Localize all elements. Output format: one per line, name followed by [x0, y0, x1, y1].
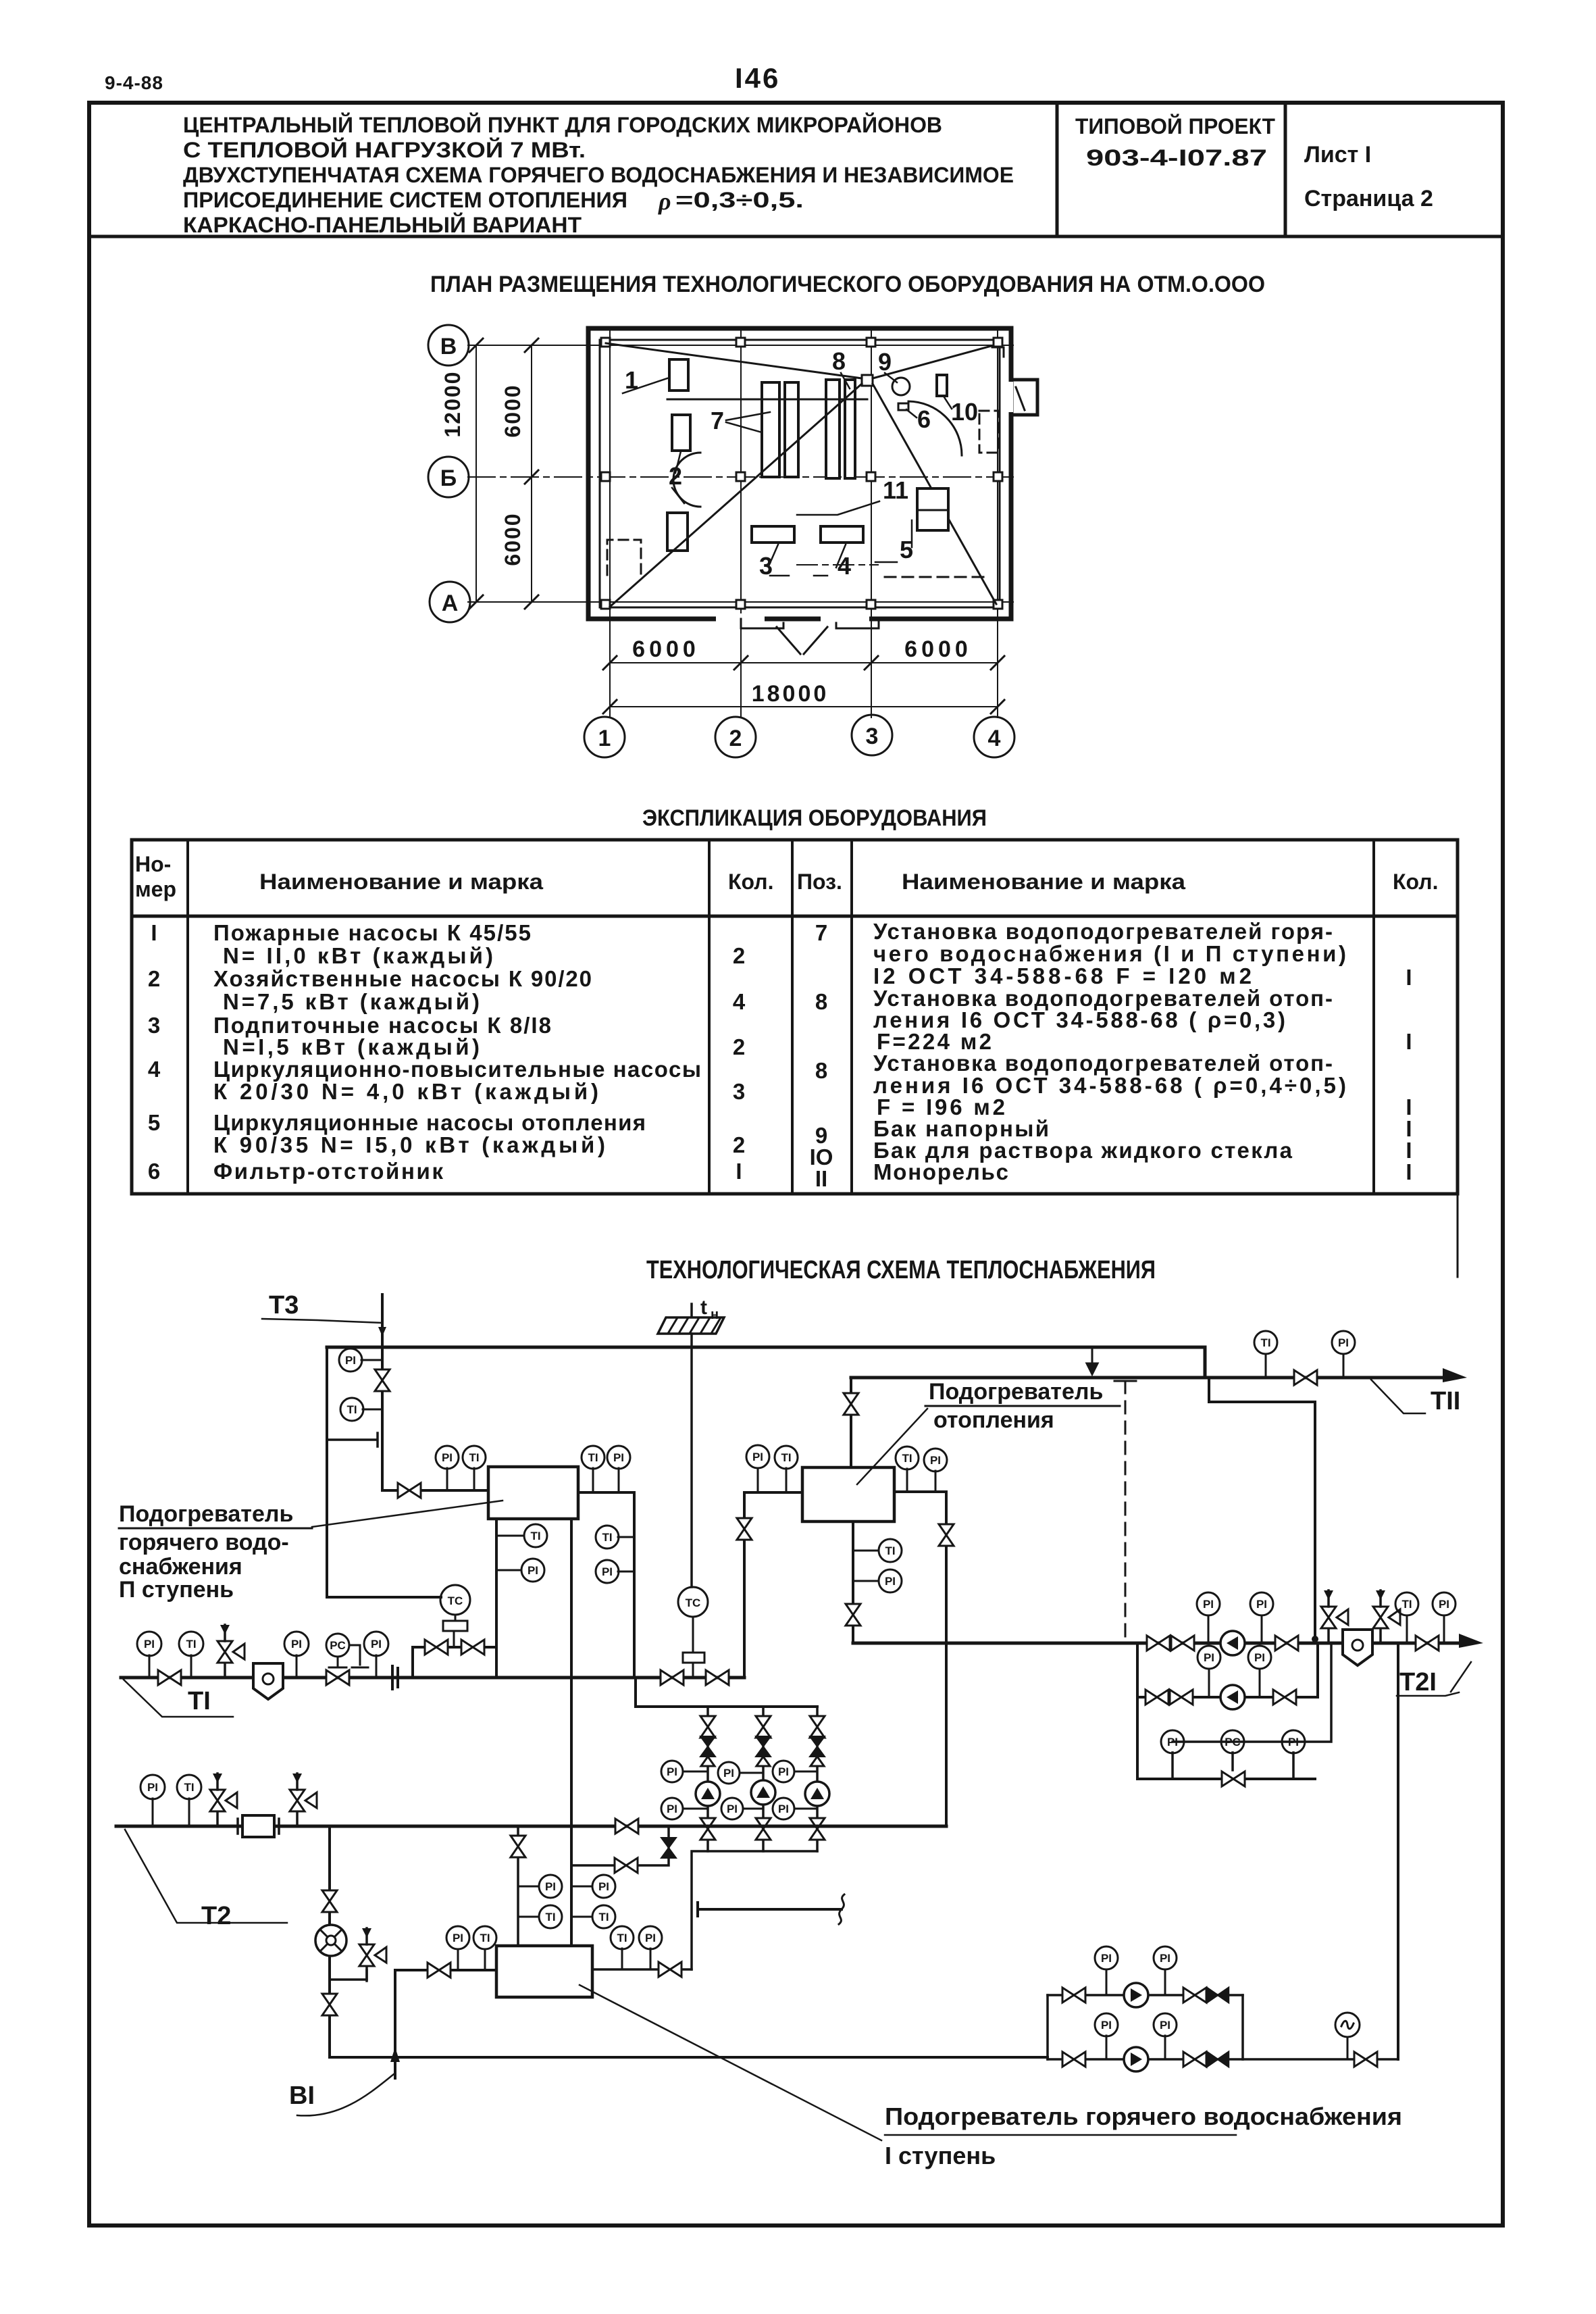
equipment 6 small [898, 403, 908, 410]
svg-text:П ступень: П ступень [119, 1577, 234, 1603]
svg-text:PI: PI [1256, 1598, 1267, 1611]
monorail diagonal to bottom-right [873, 384, 996, 604]
svg-text:2: 2 [669, 462, 682, 490]
svg-text:снабжения: снабжения [119, 1554, 242, 1580]
equipment 9: tank circle [892, 378, 910, 395]
svg-text:2: 2 [148, 966, 160, 991]
svg-text:PI: PI [667, 1803, 677, 1815]
wire: T11 to T21 connection [1209, 1378, 1315, 1638]
pump branch 2 [762, 1707, 765, 1851]
svg-text:TI: TI [186, 1638, 196, 1651]
pump 2 [751, 1780, 775, 1805]
svg-text:I: I [1406, 1029, 1412, 1054]
svg-text:TC: TC [448, 1594, 463, 1607]
svg-text:Поз.: Поз. [797, 870, 842, 894]
gauge PI pump1 left [1208, 1615, 1210, 1643]
svg-text:PI: PI [727, 1803, 738, 1815]
svg-text:N= II,0 кВт (каждый): N= II,0 кВт (каждый) [223, 943, 493, 968]
vestibule porch [1013, 380, 1037, 415]
mud separator on T21 [1343, 1630, 1372, 1665]
monorail diagonal to top-right [873, 346, 992, 378]
right border stub below table [1457, 1194, 1459, 1277]
svg-text:I ступень: I ступень [885, 2142, 996, 2169]
equipment rect below 1 [672, 415, 690, 451]
gauge TI on T21 [1406, 1615, 1408, 1643]
stage I pump top branch [1048, 1994, 1243, 1996]
svg-text:11: 11 [883, 476, 908, 504]
leader to HX1 [312, 1501, 503, 1527]
title block divider 1 [1056, 103, 1059, 236]
stage I pump group: left riser [1046, 1995, 1049, 2059]
gauge PI on T1 [149, 1655, 151, 1678]
svg-text:PI: PI [598, 1880, 609, 1893]
svg-text:PI: PI [930, 1454, 941, 1467]
svg-text:PI: PI [1101, 2019, 1112, 2032]
svg-text:Т2I: Т2I [1399, 1668, 1437, 1696]
leader to HX2 [857, 1409, 927, 1484]
gauge PI before pump Ib [1106, 2036, 1108, 2059]
building inner wall [600, 340, 1000, 607]
gauge TI above HX2 left [786, 1468, 788, 1492]
svg-text:903-4-I07.87: 903-4-I07.87 [1086, 145, 1267, 171]
pump 1 [696, 1782, 720, 1806]
gauge PI HX-I inlet [457, 1949, 459, 1970]
svg-text:Циркуляционно-повысительные на: Циркуляционно-повысительные насосы [213, 1057, 701, 1082]
svg-text:2: 2 [733, 1034, 745, 1059]
leader T3 [262, 1319, 382, 1323]
svg-text:6000: 6000 [500, 384, 525, 437]
svg-text:2: 2 [733, 1132, 745, 1157]
gauge PI pump2 left [1208, 1669, 1210, 1697]
svg-text:5: 5 [148, 1110, 160, 1135]
svg-text:9: 9 [878, 348, 892, 376]
svg-text:PI: PI [1288, 1736, 1299, 1749]
pump circulation 2 [1220, 1685, 1245, 1709]
svg-text:Т3: Т3 [269, 1291, 299, 1319]
svg-text:TI: TI [588, 1451, 598, 1464]
svg-text:PI: PI [1204, 1651, 1214, 1664]
svg-text:TI: TI [598, 1911, 609, 1923]
svg-text:I46: I46 [735, 62, 780, 94]
gauge PI before pump Ia [1106, 1969, 1108, 1995]
svg-text:Хозяйственные насосы К 90/20: Хозяйственные насосы К 90/20 [213, 966, 592, 991]
stage I pump right riser [1241, 1995, 1244, 2059]
dashed drain line [1125, 1381, 1127, 1638]
svg-text:ЭКСПЛИКАЦИЯ ОБОРУДОВАНИЯ: ЭКСПЛИКАЦИЯ ОБОРУДОВАНИЯ [642, 805, 987, 831]
monorail trolley square [862, 375, 873, 386]
gauge PI on T11 [1343, 1354, 1345, 1378]
gauge TI HX-I inlet [484, 1949, 486, 1970]
plan item labels with leaders [623, 347, 978, 580]
svg-text:PI: PI [1203, 1598, 1214, 1611]
gauge PI pump1 right [1261, 1615, 1263, 1643]
door leaf diagonals [777, 627, 800, 654]
svg-text:ДВУХСТУПЕНЧАТАЯ СХЕМА ГОРЯЧЕГО: ДВУХСТУПЕНЧАТАЯ СХЕМА ГОРЯЧЕГО ВОДОСНАБЖ… [183, 163, 1014, 187]
wire: T3 riser [382, 1294, 488, 1490]
wire: B1 riser to T21 junction [1397, 1643, 1399, 2059]
table body left [148, 920, 746, 1184]
svg-text:Установка водоподогревателей о: Установка водоподогревателей отоп- [873, 1051, 1333, 1076]
svg-text:TI: TI [602, 1531, 612, 1544]
svg-text:мер: мер [135, 877, 176, 901]
gauge PI on line 939 [618, 1571, 634, 1573]
svg-text:7: 7 [711, 407, 724, 434]
pump branch 3 [816, 1707, 819, 1851]
gauges PI row 2 [683, 1808, 708, 1810]
heat exchanger GVS stage II [488, 1467, 578, 1519]
equipment 10 rect [937, 375, 947, 396]
table column lines [188, 840, 1374, 1194]
wire: HX2 bottom drop [852, 1521, 854, 1643]
gauge PI on 846 [571, 1886, 592, 1888]
svg-text:Наименование и марка: Наименование и марка [259, 870, 543, 894]
wire: HX1 right outlet [578, 1492, 634, 1678]
gauge PI on 767 [518, 1886, 539, 1888]
svg-text:PI: PI [1439, 1598, 1449, 1611]
flow meter circle [1335, 2013, 1360, 2037]
svg-text:N=I,5 кВт (каждый): N=I,5 кВт (каждый) [223, 1034, 480, 1059]
svg-text:Т2: Т2 [201, 1902, 231, 1930]
broken continuation line [698, 1903, 842, 1916]
svg-text:PI: PI [1254, 1651, 1265, 1664]
svg-text:PI: PI [1167, 1736, 1178, 1749]
valve on T1 inlet [158, 1670, 181, 1685]
svg-text:TI: TI [469, 1451, 479, 1464]
grid circle 4 [974, 717, 1014, 757]
svg-text:PI: PI [752, 1451, 763, 1463]
gauge PI on drop 735 [496, 1569, 521, 1571]
svg-text:Кол.: Кол. [728, 870, 774, 894]
monorail diagonal from top-left corner [606, 343, 862, 378]
monorail beam [667, 399, 867, 401]
branch 2 fittings [756, 1716, 771, 1738]
wire: top header [327, 1346, 1205, 1349]
svg-text:PI: PI [545, 1880, 556, 1893]
wire: HX2 top outlet to T11 header [850, 1378, 852, 1467]
svg-text:II: II [815, 1166, 827, 1191]
branch 1 fittings [700, 1716, 715, 1738]
svg-text:10: 10 [951, 398, 978, 426]
svg-text:ρ: ρ [658, 188, 671, 215]
wire: left drop of GVS-II circuit [327, 1347, 441, 1597]
gauge TI on HX2 drop [853, 1550, 879, 1552]
svg-text:К 90/35 N= I5,0 кВт (каждый): К 90/35 N= I5,0 кВт (каждый) [213, 1132, 605, 1157]
table header separator [132, 915, 1458, 918]
bypass valve bottom [1222, 1771, 1245, 1786]
svg-text:ЦЕНТРАЛЬНЫЙ ТЕПЛОВОЙ ПУНКТ ДЛЯ: ЦЕНТРАЛЬНЫЙ ТЕПЛОВОЙ ПУНКТ ДЛЯ ГОРОДСКИХ… [183, 113, 942, 137]
wire: tn sensor line down to TC [690, 1334, 693, 1587]
gauge TI above HX2 right [906, 1469, 908, 1492]
svg-text:PI: PI [778, 1765, 789, 1778]
wire: main T1 [121, 1676, 744, 1680]
svg-text:PI: PI [291, 1638, 302, 1651]
svg-text:6000: 6000 [632, 636, 700, 662]
svg-text:ТII: ТII [1431, 1387, 1460, 1415]
svg-text:PI: PI [645, 1932, 656, 1944]
svg-text:4: 4 [838, 552, 851, 580]
wire: continue to meter [1243, 2058, 1398, 2061]
svg-text:N=7,5 кВт (каждый): N=7,5 кВт (каждый) [223, 989, 480, 1014]
svg-text:8: 8 [815, 1058, 827, 1083]
svg-text:TI: TI [480, 1932, 490, 1944]
gauge PI above HX1 right [618, 1468, 620, 1492]
wire: GVS pump manifold top header [636, 1678, 817, 1707]
pump branch 1 [706, 1707, 709, 1851]
gauge TI on 767 [518, 1916, 539, 1918]
safety valve on T1 [217, 1625, 244, 1678]
bottom dimension line 18000 [610, 706, 998, 707]
svg-text:PI: PI [1160, 1952, 1170, 1965]
grid axis line B [468, 345, 1013, 346]
svg-text:PI: PI [147, 1781, 158, 1794]
svg-text:PI: PI [723, 1767, 734, 1780]
branch 3 fittings [810, 1716, 825, 1738]
circulation pump row 2 [1137, 1643, 1318, 1697]
svg-text:ПЛАН РАЗМЕЩЕНИЯ ТЕХНОЛОГИЧЕСКО: ПЛАН РАЗМЕЩЕНИЯ ТЕХНОЛОГИЧЕСКОГО ОБОРУДО… [430, 272, 1265, 297]
svg-text:PI: PI [613, 1451, 624, 1464]
valve on T3 riser [375, 1369, 390, 1391]
svg-text:ТИПОВОЙ ПРОЕКТ: ТИПОВОЙ ПРОЕКТ [1075, 114, 1275, 139]
pump circulation 1 [1220, 1631, 1245, 1655]
wire: HX1 right lower drop (to stage I) [570, 1519, 573, 1946]
svg-text:PI: PI [1101, 1952, 1112, 1965]
svg-text:PI: PI [371, 1638, 382, 1651]
svg-text:PI: PI [453, 1932, 463, 1944]
svg-text:TI: TI [1401, 1598, 1412, 1611]
equipment 2: rect lower-left [667, 513, 688, 551]
valve on T11 [1294, 1370, 1317, 1385]
gauge PI pump2 right [1259, 1669, 1261, 1697]
svg-text:=0,3÷0,5.: =0,3÷0,5. [675, 188, 804, 212]
strainer on T2 [242, 1815, 274, 1837]
gauge TI on line 939 [618, 1536, 634, 1538]
svg-text:I: I [1406, 965, 1412, 990]
svg-text:Циркуляционные насосы отоплени: Циркуляционные насосы отопления [213, 1110, 646, 1135]
grid circle 1 [584, 717, 625, 757]
water meter cross [315, 1925, 346, 1956]
wire: GVS bypass with control valve [413, 1647, 496, 1678]
gauge TI above HX1 right [592, 1468, 594, 1492]
gauge PI after pump Ib [1164, 2036, 1166, 2059]
svg-text:горячего водо-: горячего водо- [119, 1530, 289, 1555]
door gaps in bottom wall [716, 613, 765, 624]
safety valve on T2 [210, 1774, 237, 1826]
circulation pump row 1 valves [1147, 1636, 1170, 1651]
svg-text:Бак для раствора жидкого стекл: Бак для раствора жидкого стекла [873, 1138, 1293, 1163]
grid axis line А [468, 601, 1013, 603]
svg-text:Подогреватель: Подогреватель [929, 1379, 1103, 1405]
svg-text:3: 3 [733, 1079, 745, 1104]
table body right [810, 919, 1412, 1191]
svg-text:6: 6 [917, 405, 931, 433]
svg-text:TI: TI [885, 1544, 895, 1557]
controller TC of heating valve [678, 1587, 708, 1617]
gauge PI above HX1 left [446, 1468, 448, 1490]
svg-text:6000: 6000 [500, 512, 525, 565]
svg-text:Монорельс: Монорельс [873, 1159, 1008, 1184]
svg-text:7: 7 [815, 920, 827, 945]
grid circle В [428, 325, 469, 366]
dashed rect right [979, 411, 998, 453]
svg-text:ВI: ВI [289, 2082, 315, 2110]
grid axis column 3 [871, 328, 872, 718]
svg-text:3: 3 [866, 724, 879, 749]
wire: HX1 bottom left drop to bypass [495, 1519, 498, 1678]
svg-text:ПРИСОЕДИНЕНИЕ СИСТЕМ ОТОПЛЕНИЯ: ПРИСОЕДИНЕНИЕ СИСТЕМ ОТОПЛЕНИЯ [183, 188, 627, 212]
gauge PI on T3 [361, 1359, 382, 1361]
grid circle 3 [852, 715, 892, 755]
table frame [132, 840, 1458, 1194]
vertical dimension line 6000/6000 [531, 345, 532, 602]
svg-text:I: I [1406, 1159, 1412, 1184]
svg-text:Страница 2: Страница 2 [1304, 186, 1433, 211]
table header texts [135, 852, 1439, 901]
equipment 7: heater unit pair B [826, 380, 840, 478]
stage I pump bottom branch [1048, 2058, 1243, 2061]
valve on T3 horizontal run [398, 1483, 421, 1498]
svg-text:TC: TC [686, 1596, 701, 1609]
svg-text:PI: PI [527, 1564, 538, 1577]
svg-text:отопления: отопления [933, 1407, 1054, 1433]
svg-text:PI: PI [345, 1354, 356, 1367]
svg-text:6: 6 [148, 1159, 160, 1184]
PC row [1173, 1643, 1331, 1779]
svg-text:TI: TI [346, 1403, 357, 1416]
svg-text:PI: PI [144, 1638, 155, 1651]
wire: elevator branch down [330, 1826, 1048, 2057]
svg-text:А: А [442, 590, 459, 616]
gauge PI on T21 end [1443, 1615, 1445, 1643]
wire: HX-I inlet [395, 1969, 496, 1971]
check branch [571, 1826, 669, 1865]
heat exchanger GVS stage I [496, 1946, 592, 1997]
svg-text:I: I [151, 920, 157, 945]
gauge PI above HX2 left [757, 1468, 759, 1492]
heat exchanger heating [802, 1467, 894, 1521]
svg-text:В: В [440, 334, 457, 359]
gauge TI HX-I outlet [621, 1948, 623, 1969]
orifice flange on T1 [392, 1666, 398, 1689]
gauge TI on T3 [363, 1409, 382, 1411]
grid circle 2 [715, 717, 756, 757]
door step slab left [741, 619, 783, 628]
gauges PI row 1 [683, 1771, 708, 1773]
pump stage I a [1124, 1983, 1148, 2007]
wire: top header right corner down [1204, 1347, 1207, 1378]
svg-text:3: 3 [148, 1013, 160, 1038]
wire: HX2 right outlet down [894, 1492, 946, 1826]
svg-text:Фильтр-отстойник: Фильтр-отстойник [213, 1159, 443, 1184]
door arc item 2 [673, 453, 700, 507]
valve on T21 end [1416, 1636, 1439, 1651]
pressure regulator PC valve [326, 1634, 349, 1657]
svg-text:Лист I: Лист I [1304, 142, 1371, 168]
svg-text:н: н [711, 1307, 719, 1322]
svg-text:TI: TI [545, 1911, 555, 1923]
controller TC of GVS valve [440, 1585, 470, 1615]
grid axis line Б (dash-dot) [468, 476, 1013, 478]
gauge PI on HX2 drop [853, 1580, 879, 1582]
branch bottom valves crossing T2 [700, 1818, 715, 1840]
svg-text:1: 1 [598, 726, 611, 751]
equipment 4 rect [821, 526, 863, 543]
side relief branch [331, 1970, 367, 1980]
svg-text:С ТЕПЛОВОЙ НАГРУЗКОЙ 7 МВт.: С ТЕПЛОВОЙ НАГРУЗКОЙ 7 МВт. [183, 138, 586, 162]
gauge TI on drop 735 [496, 1535, 524, 1537]
grid axis column 4 [997, 328, 998, 718]
valve after pump 2 [1273, 1690, 1296, 1705]
svg-text:PI: PI [667, 1765, 677, 1778]
vertical dimension line 12000 [475, 345, 477, 602]
circulation pump loop left vertical [1137, 1643, 1315, 1779]
svg-text:Б: Б [440, 466, 457, 491]
gauge PI HX-I outlet [650, 1948, 652, 1969]
wire: pump manifold bottom header [692, 1851, 817, 1969]
svg-text:PC: PC [1225, 1736, 1241, 1749]
svg-text:t: t [700, 1297, 707, 1319]
building outer wall [588, 328, 1011, 619]
svg-text:ТI: ТI [188, 1687, 211, 1715]
equipment 3 rect [752, 526, 794, 543]
svg-text:PI: PI [885, 1575, 896, 1588]
grid axis column 2 [740, 328, 742, 718]
svg-text:Установка водоподогревателей г: Установка водоподогревателей горя- [873, 919, 1333, 944]
svg-text:Пожарные насосы К 45/55: Пожарные насосы К 45/55 [213, 920, 531, 945]
valve on T2 right [615, 1819, 638, 1834]
pump 3 [805, 1782, 829, 1806]
safety valve 2 on T21 [1373, 1590, 1400, 1643]
leader from HX-I to label [580, 1985, 881, 2140]
gauge TI above HX1 left [473, 1468, 475, 1490]
monorail diagonal to bottom-left [610, 384, 862, 607]
door arc right [908, 401, 962, 455]
svg-text:КАРКАСНО-ПАНЕЛЬНЫЙ ВАРИАНТ: КАРКАСНО-ПАНЕЛЬНЫЙ ВАРИАНТ [183, 213, 582, 237]
stub tick [327, 1433, 378, 1447]
wire: T21 main [853, 1642, 1472, 1645]
gauge PI on T2 [152, 1799, 154, 1826]
wire: make-up branch from T2 to HX-I inlet [517, 1826, 519, 1946]
safety valve 2 on T2 [290, 1774, 317, 1826]
title block divider 2 [1284, 103, 1287, 236]
gauge PI after separator [296, 1655, 298, 1678]
equipment 7: heater unit pair A [762, 382, 779, 477]
svg-text:TI: TI [184, 1781, 194, 1794]
gauge PI after pump Ia [1164, 1969, 1166, 1995]
svg-text:I: I [736, 1159, 742, 1184]
svg-text:6000: 6000 [904, 636, 972, 662]
svg-text:4: 4 [733, 989, 746, 1014]
wire: B1 riser [394, 1970, 396, 2078]
dashed store rect bottom-left [607, 540, 641, 575]
equipment 1: fire pump rect [669, 359, 688, 391]
dashed line bottom right [885, 576, 986, 578]
title block bottom line [89, 235, 1503, 238]
svg-text:4: 4 [988, 726, 1001, 751]
svg-text:12000: 12000 [440, 371, 465, 438]
svg-text:ТЕХНОЛОГИЧЕСКАЯ СХЕМА ТЕПЛОСНА: ТЕХНОЛОГИЧЕСКАЯ СХЕМА ТЕПЛОСНАБЖЕНИЯ [646, 1256, 1156, 1284]
svg-text:TI: TI [1260, 1336, 1270, 1349]
column squares [601, 338, 1002, 609]
svg-text:TI: TI [617, 1932, 627, 1944]
gauge PI above HX2 right [935, 1471, 937, 1492]
bottom dimension line 6000+6000 [610, 662, 998, 663]
svg-text:PI: PI [778, 1803, 789, 1815]
svg-text:TI: TI [781, 1451, 791, 1464]
wire: T11 header [851, 1376, 1456, 1380]
wire: HX-I outlet to pumps [592, 1968, 692, 1971]
title block main text [183, 113, 1014, 237]
svg-text:8: 8 [815, 989, 827, 1014]
